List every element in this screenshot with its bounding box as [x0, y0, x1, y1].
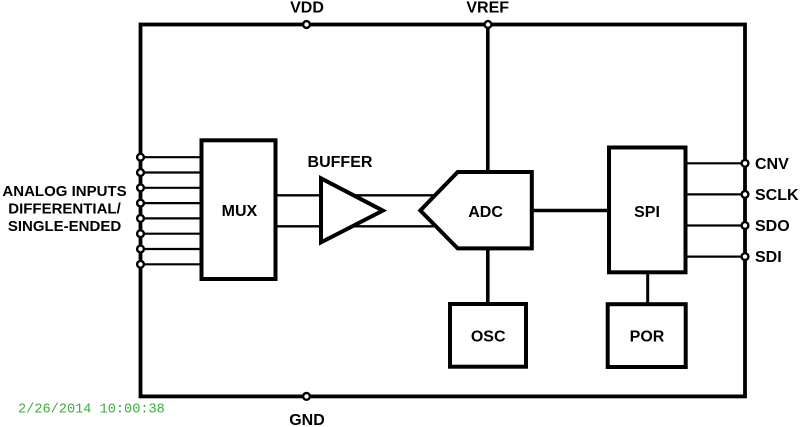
svg-text:POR: POR [630, 328, 665, 345]
block ADC pentagon [420, 172, 532, 248]
bus MUX to ADC lower line [276, 225, 438, 227]
wire analog input 4 [141, 202, 202, 204]
pin analog input 4 [137, 200, 144, 207]
pin GND [303, 393, 310, 400]
svg-text:DIFFERENTIAL/: DIFFERENTIAL/ [8, 201, 121, 218]
pin CNV [742, 160, 749, 167]
svg-text:SDI: SDI [755, 249, 782, 266]
block SPI [609, 148, 686, 273]
block POR [608, 304, 686, 367]
svg-text:BUFFER: BUFFER [308, 154, 373, 171]
wire VREF to ADC [486, 25, 490, 173]
pin SDI [742, 253, 749, 260]
pin analog input 1 [137, 154, 144, 161]
svg-text:SCLK: SCLK [755, 187, 799, 204]
chip boundary [141, 25, 746, 397]
wire ADC to SPI [532, 209, 609, 213]
pin analog input 5 [137, 215, 144, 222]
svg-text:GND: GND [289, 412, 325, 427]
svg-text:SDO: SDO [755, 218, 790, 235]
pin analog input 7 [137, 246, 144, 253]
svg-text:2/26/2014 10:00:38: 2/26/2014 10:00:38 [18, 403, 165, 418]
pin VREF [485, 21, 492, 28]
wire SPI to SDO [686, 224, 746, 226]
wire ADC to OSC [486, 248, 490, 304]
pin analog input 6 [137, 230, 144, 237]
svg-text:SPI: SPI [634, 204, 660, 221]
pin analog input 3 [137, 184, 144, 191]
svg-text:MUX: MUX [222, 203, 258, 220]
wire analog input 8 [141, 263, 202, 265]
buffer amplifier triangle [321, 178, 383, 242]
wire SPI to SDI [686, 256, 746, 258]
pin analog input 2 [137, 169, 144, 176]
svg-text:ADC: ADC [468, 204, 503, 221]
svg-text:ANALOG INPUTS: ANALOG INPUTS [2, 183, 126, 200]
svg-text:SINGLE-ENDED: SINGLE-ENDED [8, 218, 122, 235]
svg-text:VDD: VDD [290, 0, 324, 17]
wire analog input 2 [141, 171, 202, 173]
wire analog input 7 [141, 248, 202, 250]
wire SPI to SCLK [686, 193, 746, 195]
svg-text:OSC: OSC [471, 328, 506, 345]
svg-text:VREF: VREF [466, 0, 509, 17]
wire analog input 5 [141, 217, 202, 219]
bus MUX to ADC upper line [276, 194, 438, 196]
wire analog input 1 [141, 156, 202, 158]
wire analog input 3 [141, 187, 202, 189]
wire analog input 6 [141, 233, 202, 235]
pin VDD [303, 21, 310, 28]
wire SPI to POR [646, 272, 649, 304]
wire SPI to CNV [686, 162, 746, 164]
pin analog input 8 [137, 261, 144, 268]
block MUX [202, 140, 276, 279]
pin SDO [742, 222, 749, 229]
pin SCLK [742, 191, 749, 198]
block OSC [450, 304, 526, 367]
svg-text:CNV: CNV [755, 156, 789, 173]
